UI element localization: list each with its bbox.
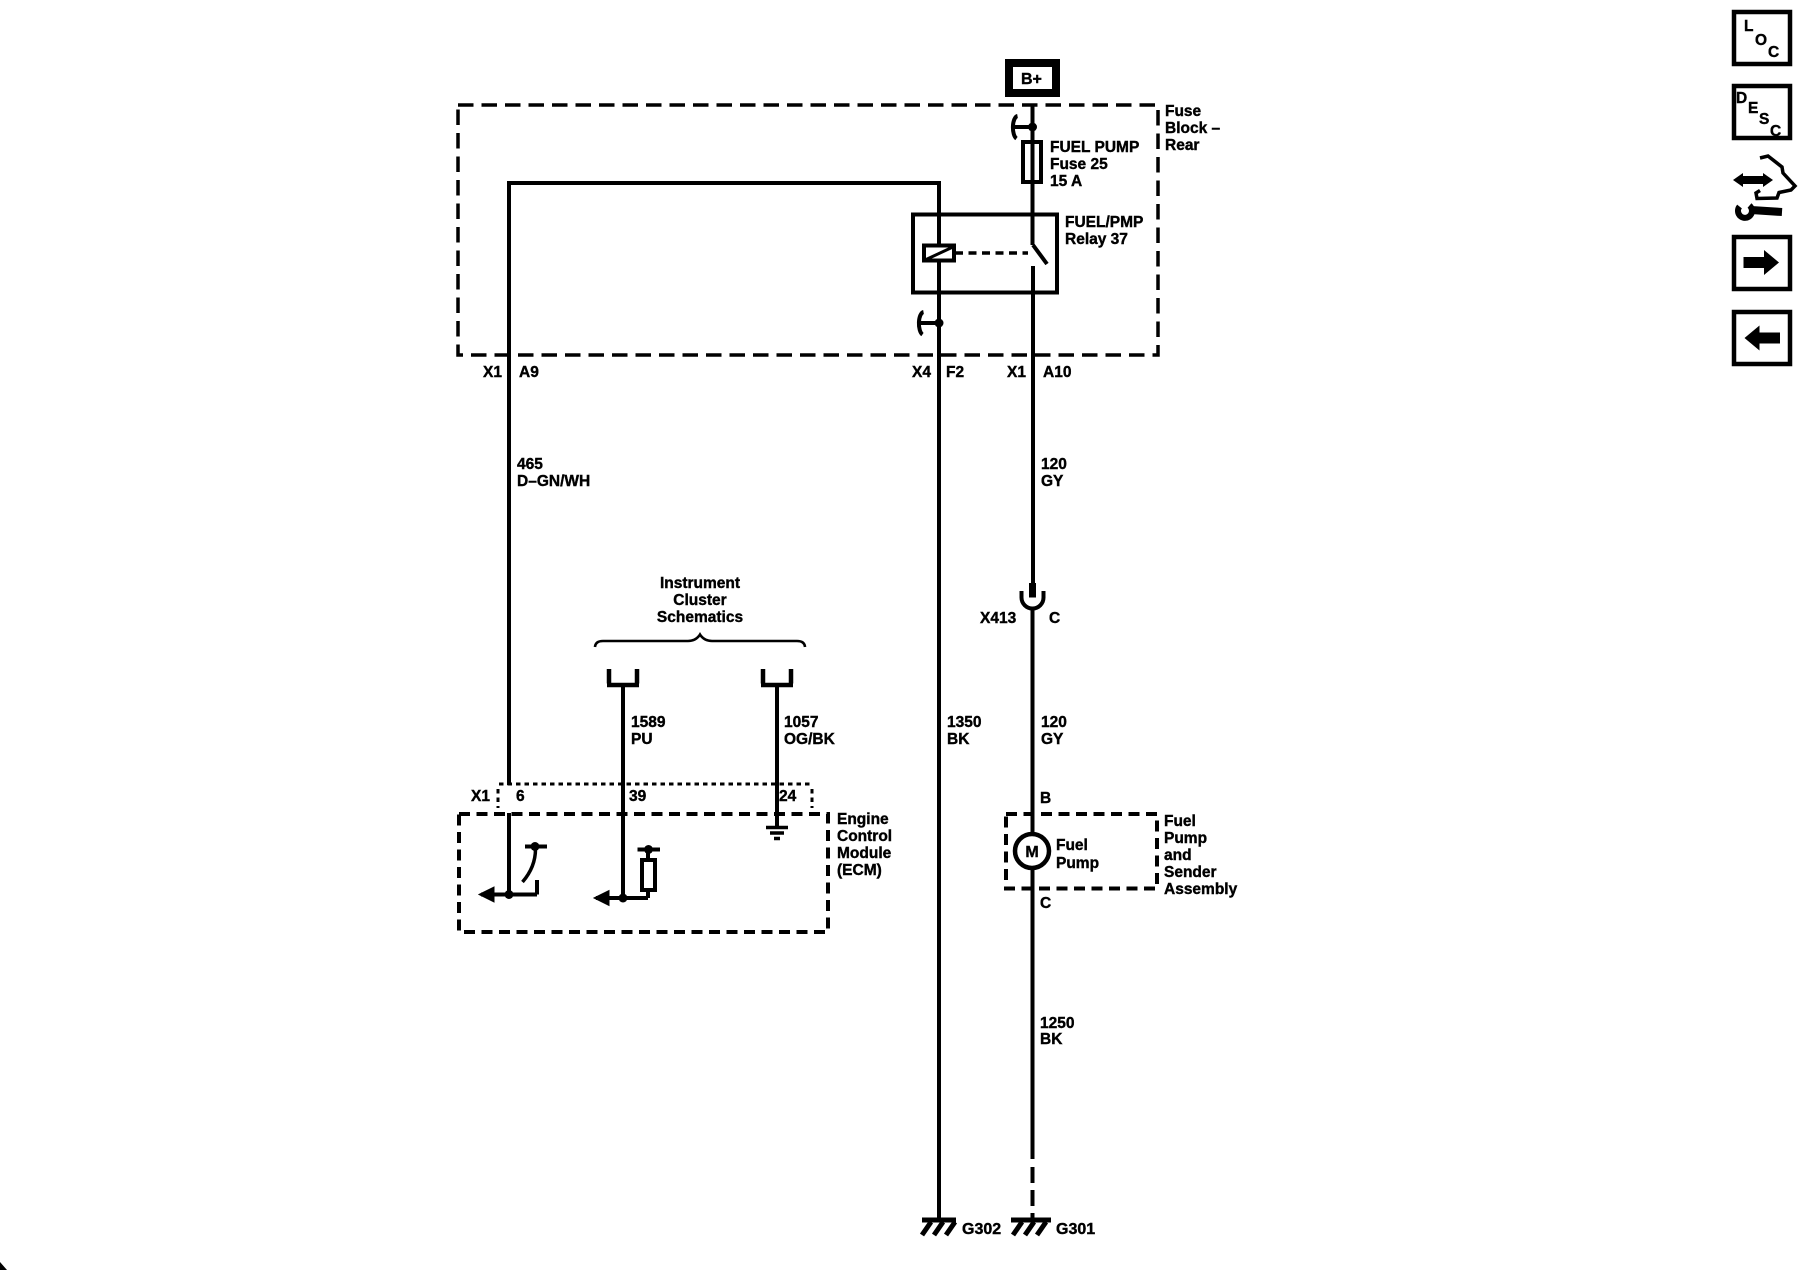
svg-text:A10: A10 — [1043, 364, 1071, 381]
svg-text:M: M — [1025, 844, 1038, 861]
svg-text:120: 120 — [1041, 714, 1067, 731]
wire label 1250 BK — [1040, 1015, 1074, 1048]
svg-text:F2: F2 — [946, 364, 964, 381]
brace — [595, 635, 805, 648]
instrument cluster schematics callout — [657, 575, 743, 626]
wire: instrument cluster to ECM pin 24 (1057 OG/BK) — [775, 687, 779, 827]
wire label 1589 PU — [631, 714, 666, 748]
clip symbol on F2 wire — [918, 312, 944, 335]
svg-text:1350: 1350 — [947, 714, 981, 731]
svg-text:C: C — [1770, 123, 1781, 140]
svg-text:1250: 1250 — [1040, 1015, 1074, 1032]
ECM pin labels — [471, 788, 797, 805]
svg-text:G301: G301 — [1056, 1221, 1095, 1238]
relay internal dashed link — [955, 251, 1028, 255]
svg-text:PU: PU — [631, 731, 653, 748]
svg-text:L: L — [1744, 18, 1753, 35]
wire: fuel pump C down solid (1250 BK) — [1031, 867, 1035, 1159]
svg-text:BK: BK — [947, 731, 970, 748]
svg-text:Assembly: Assembly — [1164, 881, 1238, 898]
pin labels X4 F2 — [912, 364, 964, 381]
svg-text:24: 24 — [779, 788, 797, 805]
svg-text:FUEL/PMP: FUEL/PMP — [1065, 214, 1143, 231]
relay switch blade — [1033, 245, 1047, 264]
wire label 465 D-GN/WH — [517, 456, 590, 490]
clip symbol on B+ feed — [1013, 116, 1037, 139]
ECM pin6 driver: switch contact — [523, 842, 548, 895]
icon hotlink arrows and wrench — [1733, 156, 1795, 218]
svg-text:Sender: Sender — [1164, 864, 1217, 881]
svg-text:1589: 1589 — [631, 714, 666, 731]
fuse block rear dashed box — [458, 103, 1221, 355]
svg-text:X413: X413 — [980, 610, 1017, 627]
svg-text:C: C — [1049, 610, 1060, 627]
svg-text:Rear: Rear — [1165, 137, 1199, 154]
svg-text:1057: 1057 — [784, 714, 818, 731]
svg-text:B: B — [1040, 790, 1051, 807]
wire: dashed lower 1250 BK to G301 — [1031, 1167, 1035, 1218]
B+ power symbol — [1009, 63, 1056, 93]
ECM pin39 input: arrow and junction — [594, 891, 648, 906]
svg-text:GY: GY — [1041, 731, 1064, 748]
icon LOC box — [1734, 12, 1790, 64]
ECM internal ground at pin 24 — [766, 828, 788, 839]
svg-text:Block –: Block – — [1165, 120, 1221, 137]
pin labels X1 A9 — [483, 364, 539, 381]
wire label 120 GY upper — [1041, 456, 1067, 490]
pin labels X1 A10 — [1007, 364, 1071, 381]
svg-text:Fuel: Fuel — [1164, 813, 1196, 830]
svg-text:(ECM): (ECM) — [837, 862, 882, 879]
svg-text:B+: B+ — [1021, 71, 1042, 88]
wire: 465 D-GN/WH horizontal run from A9 to relay coil — [509, 183, 939, 785]
svg-text:G302: G302 — [962, 1221, 1001, 1238]
fuel pump motor M — [1015, 834, 1099, 872]
terminal U to cluster (right) — [761, 669, 793, 685]
wire: ECM pin 6 internal stub — [507, 813, 511, 895]
icon back arrow box — [1734, 312, 1790, 364]
svg-text:120: 120 — [1041, 456, 1067, 473]
svg-text:C: C — [1040, 895, 1051, 912]
svg-text:D–GN/WH: D–GN/WH — [517, 473, 590, 490]
ECM pin39 pull-up resistor — [638, 845, 661, 898]
svg-text:A9: A9 — [519, 364, 539, 381]
svg-text:OG/BK: OG/BK — [784, 731, 836, 748]
svg-text:X1: X1 — [1007, 364, 1026, 381]
inline connector X413 — [980, 583, 1060, 627]
svg-text:GY: GY — [1041, 473, 1064, 490]
fuse FUEL PUMP Fuse 25 15 A — [1023, 139, 1139, 190]
svg-text:Fuel: Fuel — [1056, 837, 1088, 854]
ground G301 — [1011, 1218, 1095, 1239]
svg-text:465: 465 — [517, 456, 543, 473]
wire label 1057 OG/BK — [784, 714, 836, 748]
relay FUEL/PMP Relay 37 box — [913, 214, 1143, 293]
svg-text:Control: Control — [837, 828, 892, 845]
svg-text:X1: X1 — [471, 788, 490, 805]
svg-text:Schematics: Schematics — [657, 609, 743, 626]
wire: instrument cluster to ECM pin 39 (1589 PU) — [621, 687, 625, 898]
svg-text:and: and — [1164, 847, 1192, 864]
svg-text:S: S — [1759, 111, 1769, 128]
svg-text:Fuse 25: Fuse 25 — [1050, 156, 1108, 173]
svg-text:Relay 37: Relay 37 — [1065, 231, 1128, 248]
svg-text:BK: BK — [1040, 1031, 1063, 1048]
svg-text:15 A: 15 A — [1050, 173, 1082, 190]
svg-text:Module: Module — [837, 845, 892, 862]
wire: X413 to fuel pump B (120 GY) — [1031, 609, 1035, 835]
svg-text:O: O — [1755, 32, 1767, 49]
icon forward arrow box — [1734, 237, 1790, 289]
wire label 120 GY lower — [1041, 714, 1067, 748]
terminal U to cluster (left) — [607, 669, 639, 685]
svg-text:6: 6 — [516, 788, 525, 805]
fuel pump and sender assembly dashed box — [1006, 813, 1238, 898]
svg-text:Cluster: Cluster — [673, 592, 726, 609]
svg-text:X1: X1 — [483, 364, 502, 381]
svg-text:Engine: Engine — [837, 811, 889, 828]
svg-text:C: C — [1768, 44, 1779, 61]
ground G302 — [922, 1218, 1001, 1239]
svg-text:X4: X4 — [912, 364, 931, 381]
ECM connector X1 dotted strip — [498, 784, 812, 808]
svg-text:FUEL PUMP: FUEL PUMP — [1050, 139, 1139, 156]
stray scan mark bottom-left — [0, 1262, 7, 1270]
wire label 1350 BK — [947, 714, 981, 748]
relay coil — [924, 246, 954, 261]
icon DESC box — [1734, 86, 1790, 140]
wire: relay switch output down to X413 (120 GY) — [1031, 266, 1035, 583]
svg-text:D: D — [1736, 90, 1747, 107]
svg-text:Instrument: Instrument — [660, 575, 740, 592]
svg-text:Pump: Pump — [1056, 855, 1099, 872]
wire: B+ feed down to fuse and relay switch — [1031, 104, 1035, 245]
svg-text:E: E — [1748, 100, 1758, 117]
svg-text:Fuse: Fuse — [1165, 103, 1202, 120]
engine control module dashed box — [459, 811, 892, 932]
svg-text:39: 39 — [629, 788, 647, 805]
ECM pin6 driver: output arrow — [479, 887, 537, 902]
svg-text:Pump: Pump — [1164, 830, 1207, 847]
wire: relay coil down through F2 to G302 (1350 BK) — [937, 181, 941, 1219]
